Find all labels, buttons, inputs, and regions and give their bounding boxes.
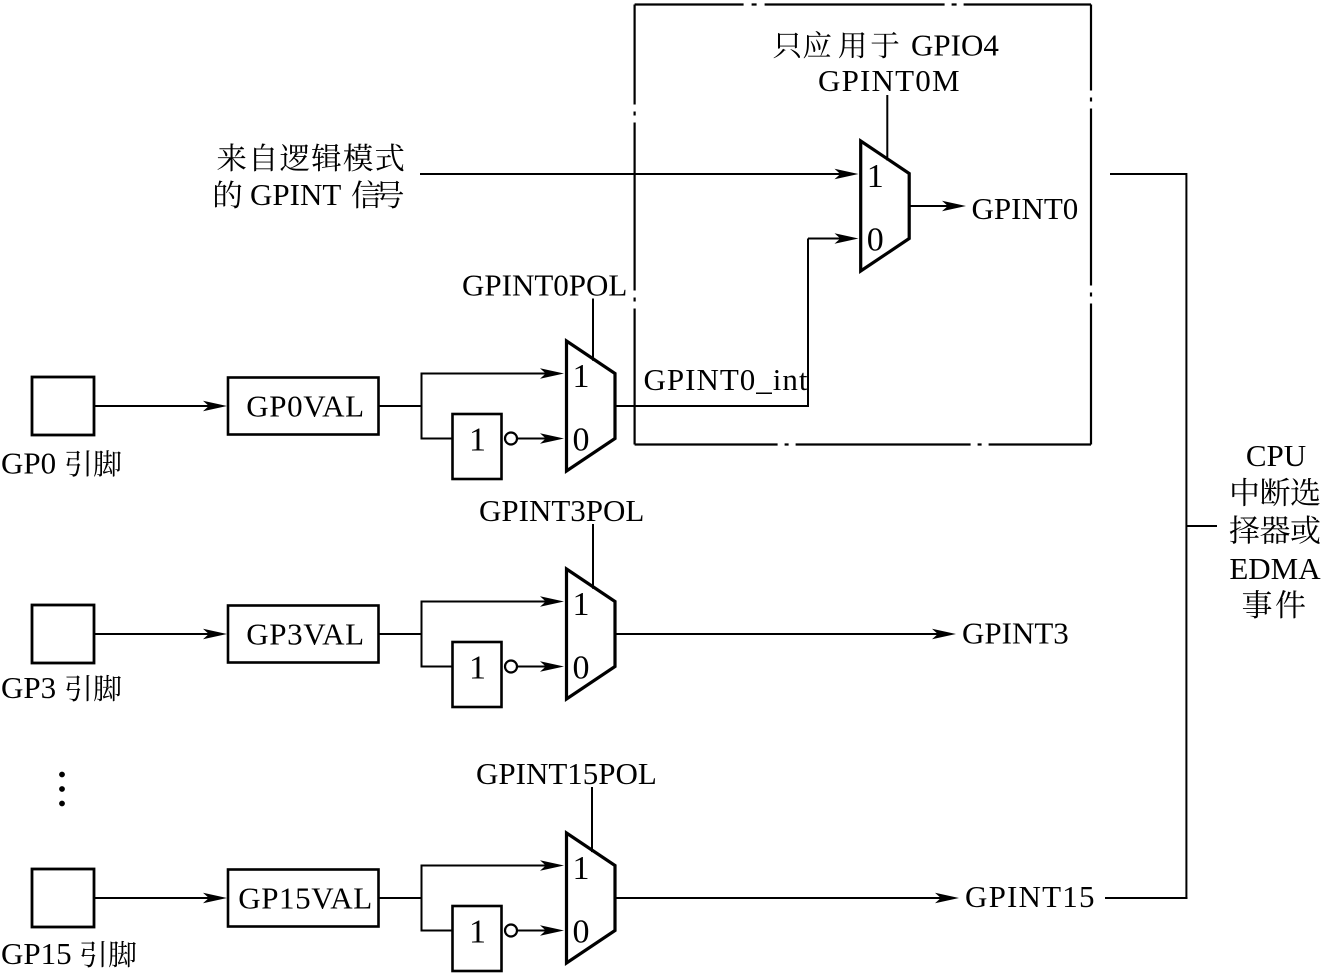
node: GP3 branch junction (421, 601, 423, 668)
mux GPINT0POL select (567, 341, 616, 471)
wire: GPINT15POL control into mux (591, 787, 593, 852)
wire: GP15 pin to GP15VAL (94, 893, 227, 903)
GP15 pin box (32, 869, 94, 927)
svg-text:GPINT15POL: GPINT15POL (476, 756, 657, 791)
ellipsis: more GP rows (59, 772, 65, 807)
svg-text:GP15: GP15 (1, 936, 72, 971)
svg-text:1: 1 (469, 650, 486, 687)
wire: inverter to GPINT3POL mux input 0 (517, 661, 564, 671)
label: CPU 中断选择器或 EDMA 事件 (1229, 438, 1321, 618)
GP0 pin box (32, 377, 94, 435)
svg-text:0: 0 (573, 914, 590, 951)
svg-text:GPINT0POL: GPINT0POL (462, 268, 627, 303)
wire: tick to CPU label (1186, 525, 1217, 527)
svg-text:GPINT3: GPINT3 (962, 616, 1069, 651)
inverter bubble row GP3 (505, 661, 517, 673)
wire: GP3 pin to GP3VAL (94, 629, 227, 639)
label: GPINT15 (965, 879, 1096, 914)
wire: branch to GPINT0POL mux input 1 (421, 368, 564, 378)
pin label 0 on GPINT3POL mux (573, 650, 590, 687)
svg-text:1: 1 (573, 850, 590, 887)
wire: GPINT3 output (615, 629, 956, 639)
register GP15VAL (228, 870, 379, 927)
svg-text:GPINT0_int: GPINT0_int (644, 362, 809, 397)
svg-text:0: 0 (573, 422, 590, 459)
inverter (value 1 block) row GP0 (453, 414, 502, 479)
wire: branch to inverter input (421, 930, 453, 932)
label: GPINT3 (962, 616, 1069, 651)
svg-text:1: 1 (573, 358, 590, 395)
wire: GPINT0_int from GPINT0POL mux up to U1 input 0 (615, 233, 859, 406)
wire: GP0 pin to GP0VAL (94, 401, 227, 411)
region boundary box (dash-dot, GPIO4-only logic) (635, 5, 1091, 445)
svg-text:GPINT15: GPINT15 (965, 879, 1096, 914)
svg-text:EDMA: EDMA (1229, 551, 1321, 586)
svg-text:GPINT: GPINT (250, 177, 341, 212)
mux GPINT15POL select (567, 833, 616, 963)
label: GPINT0 (972, 191, 1079, 226)
svg-text:1: 1 (469, 422, 486, 459)
label: GPINT3POL (479, 493, 644, 528)
label: GPINT15POL (476, 756, 657, 791)
label: GPINT0M (818, 63, 961, 98)
mux GPINT3POL select (567, 569, 616, 699)
inverter (value 1 block) row GP15 (453, 906, 502, 971)
wire: inverter to GPINT15POL mux input 0 (517, 925, 564, 935)
svg-text:GPINT3POL: GPINT3POL (479, 493, 644, 528)
node: GP15 branch junction (421, 865, 423, 932)
svg-text:CPU: CPU (1246, 438, 1306, 473)
wire: branch to inverter input (421, 438, 453, 440)
svg-text:GP0VAL: GP0VAL (246, 389, 364, 424)
register GP0VAL (228, 378, 379, 435)
svg-text:GP3VAL: GP3VAL (246, 617, 364, 652)
svg-text:0: 0 (573, 650, 590, 687)
wire: branch to inverter input (421, 666, 453, 668)
GP3 pin box (32, 605, 94, 663)
label: 只应用于 GPIO4 (774, 28, 1000, 63)
wire: GPINT15 output (615, 893, 959, 903)
wire: branch to GPINT15POL mux input 1 (421, 860, 564, 870)
wire: U1 output (909, 201, 966, 211)
wire: inverter to GPINT0POL mux input 0 (517, 433, 564, 443)
wire: GPINT15 to CPU rail (1105, 897, 1188, 899)
pin label 1 on GPINT3POL mux (573, 586, 590, 623)
pin label 0 on GPINT0POL mux (573, 422, 590, 459)
inverter bubble row GP15 (505, 925, 517, 937)
label: GP3 引脚 (1, 670, 121, 705)
inverter (value 1 block) row GP3 (453, 642, 502, 707)
svg-text:1: 1 (867, 158, 884, 195)
label: GP15 引脚 (1, 936, 136, 971)
wire: GP0VAL output to branch node (379, 405, 422, 407)
pin label 1 on GPINT0POL mux (573, 358, 590, 395)
svg-text:1: 1 (573, 586, 590, 623)
label: GP0 引脚 (1, 445, 121, 480)
node: GP0 branch junction (421, 373, 423, 440)
pin label 1 on U1 (867, 158, 884, 195)
register GP3VAL (228, 606, 379, 663)
svg-text:GP0: GP0 (1, 445, 56, 480)
wire: GP3VAL output to branch node (379, 633, 422, 635)
wire: GP15VAL output to branch node (379, 897, 422, 899)
wire: branch to GPINT3POL mux input 1 (421, 596, 564, 606)
bus wire: to CPU interrupt selector (top corner from GPINT signal) (1110, 174, 1186, 899)
wire: GPINT0M control into U1 (886, 95, 888, 161)
label: GPINT0POL (462, 268, 627, 303)
wire: GPINT3POL control into mux (592, 524, 594, 589)
label: GPINT0_int (644, 362, 809, 397)
svg-text:0: 0 (867, 222, 884, 259)
inverter bubble row GP0 (505, 433, 517, 445)
svg-text:GPINT0: GPINT0 (972, 191, 1079, 226)
label: 来自逻辑模式 的 GPINT 信号 (215, 143, 404, 212)
svg-text:GPIO4: GPIO4 (911, 28, 999, 63)
svg-text:GPINT0M: GPINT0M (818, 63, 961, 98)
pin label 1 on GPINT15POL mux (573, 850, 590, 887)
svg-text:GP15VAL: GP15VAL (238, 881, 373, 916)
mux U1 (GPINT0M select) (861, 141, 910, 271)
wire: GPINT0POL control into mux (592, 299, 594, 361)
wire: GPINT signal from logic mode into U1 input 1 (420, 169, 859, 179)
pin label 0 on U1 (867, 222, 884, 259)
svg-text:GP3: GP3 (1, 670, 56, 705)
pin label 0 on GPINT15POL mux (573, 914, 590, 951)
svg-text:1: 1 (469, 914, 486, 951)
